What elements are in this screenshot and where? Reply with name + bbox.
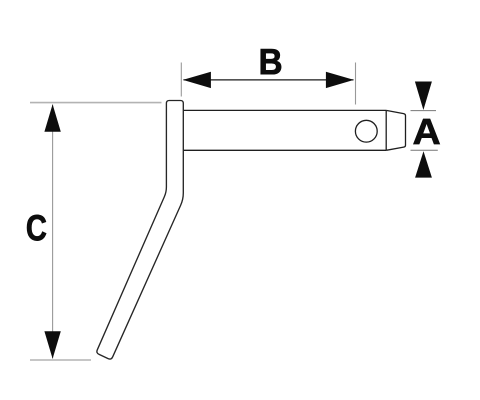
dimension line C (52, 105, 54, 359)
arrowhead A up (415, 151, 432, 177)
extension line C bottom (30, 359, 91, 361)
extension line C top (30, 102, 162, 104)
handle (bent rod) (97, 101, 183, 360)
label B (261, 49, 281, 74)
tick A top (411, 110, 437, 112)
tick A bottom (411, 149, 438, 151)
arrowhead C down (44, 331, 60, 359)
extension line B left (180, 63, 182, 97)
arrowhead C up (44, 104, 60, 132)
arrowhead B right (326, 72, 354, 88)
dimension line B (184, 79, 354, 81)
pin tapered tip (386, 110, 405, 150)
label A (414, 119, 440, 144)
extension line B right (355, 63, 357, 105)
pin chamfer line (385, 110, 387, 150)
arrowhead B left (183, 72, 211, 88)
label C (27, 215, 46, 241)
arrowhead A down (415, 82, 432, 111)
pin body (183, 110, 386, 150)
hole (355, 120, 377, 142)
